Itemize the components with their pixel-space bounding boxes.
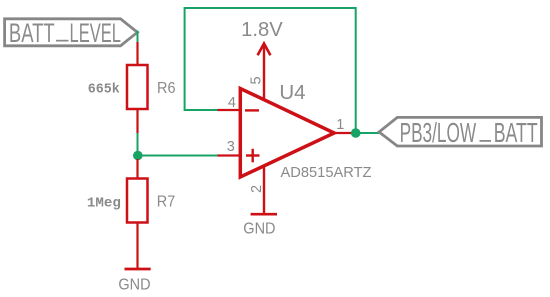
pin number 4 [228, 95, 236, 111]
svg-text:AD8515ARTZ: AD8515ARTZ [281, 165, 372, 181]
supply label 1.8V [241, 19, 283, 41]
value label AD8515ARTZ [281, 165, 372, 181]
reference label R6 [157, 80, 176, 97]
wire R6 bottom to node A (red pin segment) [136, 109, 138, 133]
wire R6 bottom to node A (green segment) [137, 133, 139, 156]
ground symbol under op-amp [243, 214, 277, 237]
svg-text:665k: 665k [88, 82, 120, 98]
svg-text:R6: R6 [157, 80, 176, 97]
resistor R6 [127, 65, 148, 109]
svg-text:BATT: BATT [494, 117, 538, 148]
pin number 2 (rotated) [249, 185, 265, 193]
net label PB3/LOW_BATT [379, 117, 542, 148]
wire pin 3 stub (red) [218, 154, 241, 156]
pin 1 output stub (red) [334, 132, 356, 134]
pin number 5 (rotated) [249, 76, 265, 84]
wire node A to pin 3 (green) [138, 155, 218, 157]
svg-text:U4: U4 [279, 82, 305, 104]
op-amp U4 triangle [240, 89, 334, 178]
wire BATT_LEVEL to R6 (green segment) [137, 31, 139, 43]
svg-text:GND: GND [243, 221, 275, 238]
net label BATT_LEVEL [5, 18, 138, 48]
pin 5 wire (red, to supply) [263, 44, 265, 101]
svg-text:R7: R7 [157, 194, 176, 211]
wire BATT_LEVEL to R6 (red pin segment) [136, 42, 138, 66]
svg-text:BATT: BATT [9, 18, 55, 48]
svg-text:4: 4 [228, 95, 236, 111]
svg-text:2: 2 [249, 185, 265, 193]
pin 2 wire (red, to ground) [263, 166, 265, 214]
wire node A to R7 (red) [136, 159, 138, 179]
svg-text:LEVEL: LEVEL [70, 18, 122, 48]
resistor R7 [127, 179, 148, 223]
svg-text:1.8V: 1.8V [241, 19, 283, 41]
non-inverting input plus sign [246, 149, 260, 163]
reference label R7 [157, 194, 176, 211]
svg-text:3: 3 [227, 139, 235, 155]
svg-text:5: 5 [249, 76, 265, 84]
wire R7 to ground (red) [136, 223, 138, 269]
wire pin 4 stub (red) [218, 109, 241, 111]
svg-text:1: 1 [336, 117, 344, 133]
pin number 1 [336, 117, 344, 133]
node A junction dot [133, 151, 143, 161]
wire node B to PB3 flag (green) [356, 132, 379, 134]
inverting input minus sign [245, 109, 259, 111]
reference label U4 [279, 82, 305, 104]
value label 665k [88, 82, 120, 98]
supply 1.8V arrow [258, 44, 271, 56]
svg-text:GND: GND [118, 276, 150, 293]
svg-text:1Meg: 1Meg [87, 195, 121, 211]
feedback wire: node B up, across top, down to pin 4 (green) [185, 8, 356, 133]
ground symbol under R7 [118, 269, 150, 293]
pin number 3 [227, 139, 235, 155]
svg-text:PB3/LOW: PB3/LOW [400, 117, 477, 148]
value label 1Meg [87, 195, 121, 211]
node B junction dot [351, 128, 361, 138]
